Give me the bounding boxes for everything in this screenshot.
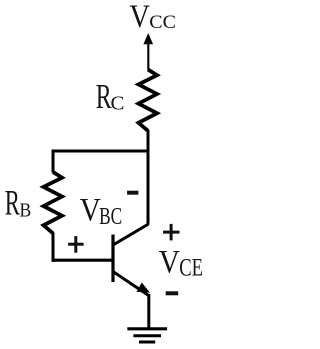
resistor RB [44, 172, 63, 233]
VCC power arrow [143, 33, 153, 70]
VCE plus sign [163, 224, 180, 241]
wire top horizontal [52, 150, 150, 153]
svg-text:C: C [111, 93, 125, 114]
label VBC [80, 192, 122, 229]
label VCE [159, 243, 203, 282]
wire emitter vertical [147, 294, 150, 329]
resistor RC [139, 70, 158, 131]
node VCC label [129, 0, 176, 34]
svg-text:V: V [80, 192, 101, 228]
svg-text:V: V [129, 0, 150, 34]
wire RB bottom lead [52, 233, 55, 262]
wire base horizontal [52, 259, 114, 262]
VBC plus sign [68, 236, 84, 253]
transistor Q1 [113, 224, 150, 296]
svg-text:R: R [5, 184, 20, 223]
VBC minus sign [127, 191, 138, 195]
resistor RC label [96, 79, 125, 116]
svg-text:V: V [159, 243, 180, 280]
svg-text:BC: BC [99, 202, 122, 230]
ground [127, 329, 167, 342]
wire RB top lead [52, 150, 55, 173]
svg-text:B: B [20, 199, 32, 221]
svg-text:R: R [96, 79, 112, 116]
svg-text:CE: CE [179, 253, 203, 282]
resistor RB label [5, 184, 32, 223]
VCE minus sign [166, 291, 179, 295]
svg-text:CC: CC [149, 12, 176, 32]
wire RC lead to collector [147, 130, 150, 225]
